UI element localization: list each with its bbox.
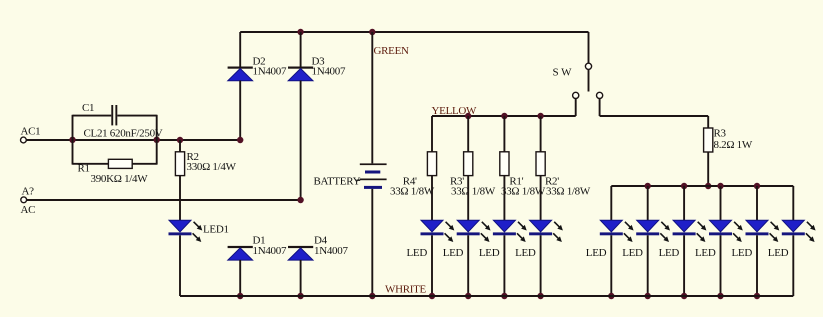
svg-text:GREEN: GREEN [374, 45, 410, 57]
led bank-right 1 [600, 220, 622, 232]
wire D1 to bottom rail [239, 260, 241, 296]
svg-text:1N4007: 1N4007 [314, 245, 348, 257]
wire AC to bridge [27, 199, 301, 201]
svg-text:1N4007: 1N4007 [253, 66, 287, 78]
junction right rail col2 [645, 183, 651, 189]
led bank-right 4 [710, 220, 732, 232]
svg-text:BATTERY: BATTERY [314, 175, 361, 187]
svg-text:1N4007: 1N4007 [312, 66, 346, 78]
wire right bank col6 lower [792, 235, 794, 296]
junction battery / bottom rail [369, 293, 375, 299]
wire R3 to right rail [707, 152, 709, 186]
wire switch right throw down [599, 99, 601, 117]
junction yellow rail col3 [501, 113, 507, 119]
junction yellow rail col4 [537, 113, 543, 119]
svg-text:R3: R3 [714, 127, 727, 139]
junction right bank col3 / bottom rail [681, 293, 687, 299]
svg-text:330Ω 1/4W: 330Ω 1/4W [187, 161, 237, 173]
svg-text:SW: SW [553, 67, 575, 79]
junction left bank col4 / bottom rail [537, 293, 543, 299]
junction right bank col1 / bottom rail [608, 293, 614, 299]
wire R3 top stub [707, 116, 709, 128]
svg-text:33Ω 1/8W: 33Ω 1/8W [451, 185, 496, 197]
wire battery column lower [371, 189, 373, 296]
wire R4' top stub [431, 116, 433, 152]
wire loop top right segment [117, 115, 156, 117]
wire AC1 to bridge [26, 139, 240, 141]
junction right bank col5 / bottom rail [754, 293, 760, 299]
wire C1-R1 loop left vertical [72, 115, 74, 165]
svg-text:LED: LED [479, 247, 500, 259]
svg-text:33Ω 1/8W: 33Ω 1/8W [390, 185, 435, 197]
wire top rail to switch [588, 32, 590, 63]
terminal AC (A?) [21, 197, 27, 203]
wire right bank top rail [611, 185, 793, 187]
svg-text:R1: R1 [78, 163, 90, 175]
battery BT1 [360, 163, 387, 165]
svg-text:AC: AC [21, 204, 36, 216]
switch SW common contact [585, 63, 591, 69]
junction left bank col3 / bottom rail [501, 293, 507, 299]
svg-text:LED: LED [622, 247, 643, 259]
svg-text:LED: LED [695, 247, 716, 259]
wire R2' top stub [540, 116, 542, 152]
svg-text:1N4007: 1N4007 [253, 245, 287, 257]
led bank-left 1 [421, 220, 443, 232]
junction right bank col4 / bottom rail [717, 293, 723, 299]
junction AC1 wire / D2 column [237, 137, 243, 143]
resistor R3' [464, 152, 473, 176]
wire right bank col3 upper [683, 186, 685, 221]
junction right bank col2 / bottom rail [645, 293, 651, 299]
svg-text:C1: C1 [82, 102, 94, 114]
led bank-right 2 [637, 220, 659, 232]
svg-text:CL21 620nF/250V: CL21 620nF/250V [84, 128, 163, 140]
led bank-left 4 [530, 220, 552, 232]
wire LED 3 to bottom rail [503, 235, 505, 296]
wire D4 to bottom rail [300, 260, 302, 296]
svg-text:LED1: LED1 [203, 224, 229, 236]
wire R2 to LED1 [179, 176, 181, 221]
diode D2 [228, 67, 253, 69]
wire top positive rail [240, 31, 588, 33]
wire LED 4 to bottom rail [540, 235, 542, 296]
wire battery column upper [371, 32, 373, 163]
switch SW blade [588, 69, 590, 91]
resistor R4' [427, 152, 436, 176]
wire right bank col6 upper [792, 186, 794, 221]
junction right rail col5 [754, 183, 760, 189]
svg-text:A?: A? [22, 186, 35, 198]
svg-text:LED: LED [659, 247, 680, 259]
junction AC1 wire / R2 column [177, 137, 183, 143]
wire R4' to LED [431, 176, 433, 221]
led LED1 [169, 220, 191, 232]
junction AC1 wire / loop left [69, 137, 75, 143]
junction D4 / bottom rail [297, 293, 303, 299]
junction right rail col3 [681, 183, 687, 189]
wire switch left throw to yellow rail [575, 99, 577, 117]
led bank-right 3 [673, 220, 695, 232]
resistor R2' [536, 152, 545, 176]
wire R2' to LED [540, 176, 542, 221]
capacitor C1 [111, 105, 113, 125]
wire LED1 to bottom rail [179, 235, 181, 296]
wire R1' top stub [503, 116, 505, 152]
junction AC1 wire / loop right [154, 137, 160, 143]
svg-text:33Ω 1/8W: 33Ω 1/8W [501, 185, 546, 197]
wire right bank col2 lower [647, 235, 649, 296]
wire R3' top stub [467, 116, 469, 152]
junction top rail / battery column [369, 29, 375, 35]
wire loop bottom left segment [73, 163, 109, 165]
junction right rail col4 [717, 183, 723, 189]
svg-text:LED: LED [515, 247, 536, 259]
wire yellow rail [432, 115, 576, 117]
wire switch right throw to R3 [600, 115, 709, 117]
wire D2 column upper [239, 32, 241, 67]
led bank-left 3 [493, 220, 515, 232]
wire loop bottom right segment [132, 163, 157, 165]
wire right bank col2 upper [647, 186, 649, 221]
junction yellow rail col2 [465, 113, 471, 119]
wire R2 top stub [179, 140, 181, 152]
led bank-right 5 [746, 220, 768, 232]
resistor R3 [704, 128, 713, 152]
wire right bank col1 lower [610, 235, 612, 296]
wire R3' to LED [467, 176, 469, 221]
junction left bank col2 / bottom rail [465, 293, 471, 299]
resistor R1' [500, 152, 509, 176]
resistor R1 [108, 159, 132, 168]
svg-text:8.2Ω 1W: 8.2Ω 1W [714, 139, 753, 151]
wire C1-R1 loop right vertical [156, 115, 158, 165]
wire right bank col3 lower [683, 235, 685, 296]
diode D4 [288, 246, 313, 248]
svg-text:LED: LED [586, 247, 607, 259]
switch SW throw right contact [597, 92, 603, 98]
junction AC wire / D3 column [297, 197, 303, 203]
diode D3 [288, 67, 313, 69]
svg-text:WHRITE: WHRITE [385, 283, 427, 295]
led bank-right 6 [782, 220, 804, 232]
junction top rail / D3 column [297, 29, 303, 35]
junction left bank col1 / bottom rail [429, 293, 435, 299]
svg-text:390KΩ 1/4W: 390KΩ 1/4W [91, 173, 149, 185]
svg-text:LED: LED [443, 247, 464, 259]
wire bottom negative rail [180, 295, 793, 297]
led bank-left 2 [457, 220, 479, 232]
wire D2-D1 column (AC node) [239, 81, 241, 141]
switch SW throw left contact [573, 92, 579, 98]
svg-text:LED: LED [768, 247, 789, 259]
wire R1' to LED [503, 176, 505, 221]
svg-text:LED: LED [407, 247, 428, 259]
svg-text:33Ω 1/8W: 33Ω 1/8W [546, 185, 591, 197]
wire D3 column upper [300, 32, 302, 67]
wire right bank col1 upper [610, 186, 612, 221]
svg-text:AC1: AC1 [21, 126, 41, 138]
wire right bank col4 lower [720, 235, 722, 296]
wire LED 1 to bottom rail [431, 235, 433, 296]
svg-text:LED: LED [732, 247, 753, 259]
wire right bank col4 upper [720, 186, 722, 221]
resistor R2 [175, 152, 184, 176]
wire loop top left segment [73, 115, 112, 117]
diode D1 [228, 246, 253, 248]
wire D3-D4 column (AC node) [300, 81, 302, 201]
junction D1 / bottom rail [237, 293, 243, 299]
wire LED 2 to bottom rail [467, 235, 469, 296]
terminal AC1 [21, 137, 27, 143]
wire right bank col5 lower [756, 235, 758, 296]
wire right bank col5 upper [756, 186, 758, 221]
junction R3 / right rail [705, 183, 711, 189]
